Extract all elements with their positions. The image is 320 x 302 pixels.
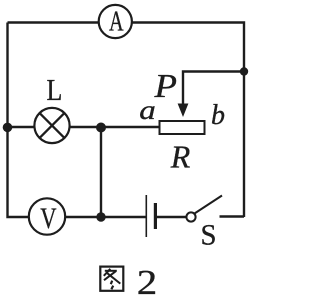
svg-text:V: V: [40, 202, 57, 235]
svg-text:S: S: [201, 219, 217, 252]
svg-text:a: a: [139, 95, 156, 125]
svg-text:A: A: [109, 7, 124, 38]
svg-text:R: R: [170, 139, 191, 175]
svg-text:P: P: [153, 68, 177, 105]
svg-text:L: L: [47, 72, 63, 107]
svg-text:2: 2: [137, 263, 158, 302]
svg-text:b: b: [211, 100, 225, 131]
